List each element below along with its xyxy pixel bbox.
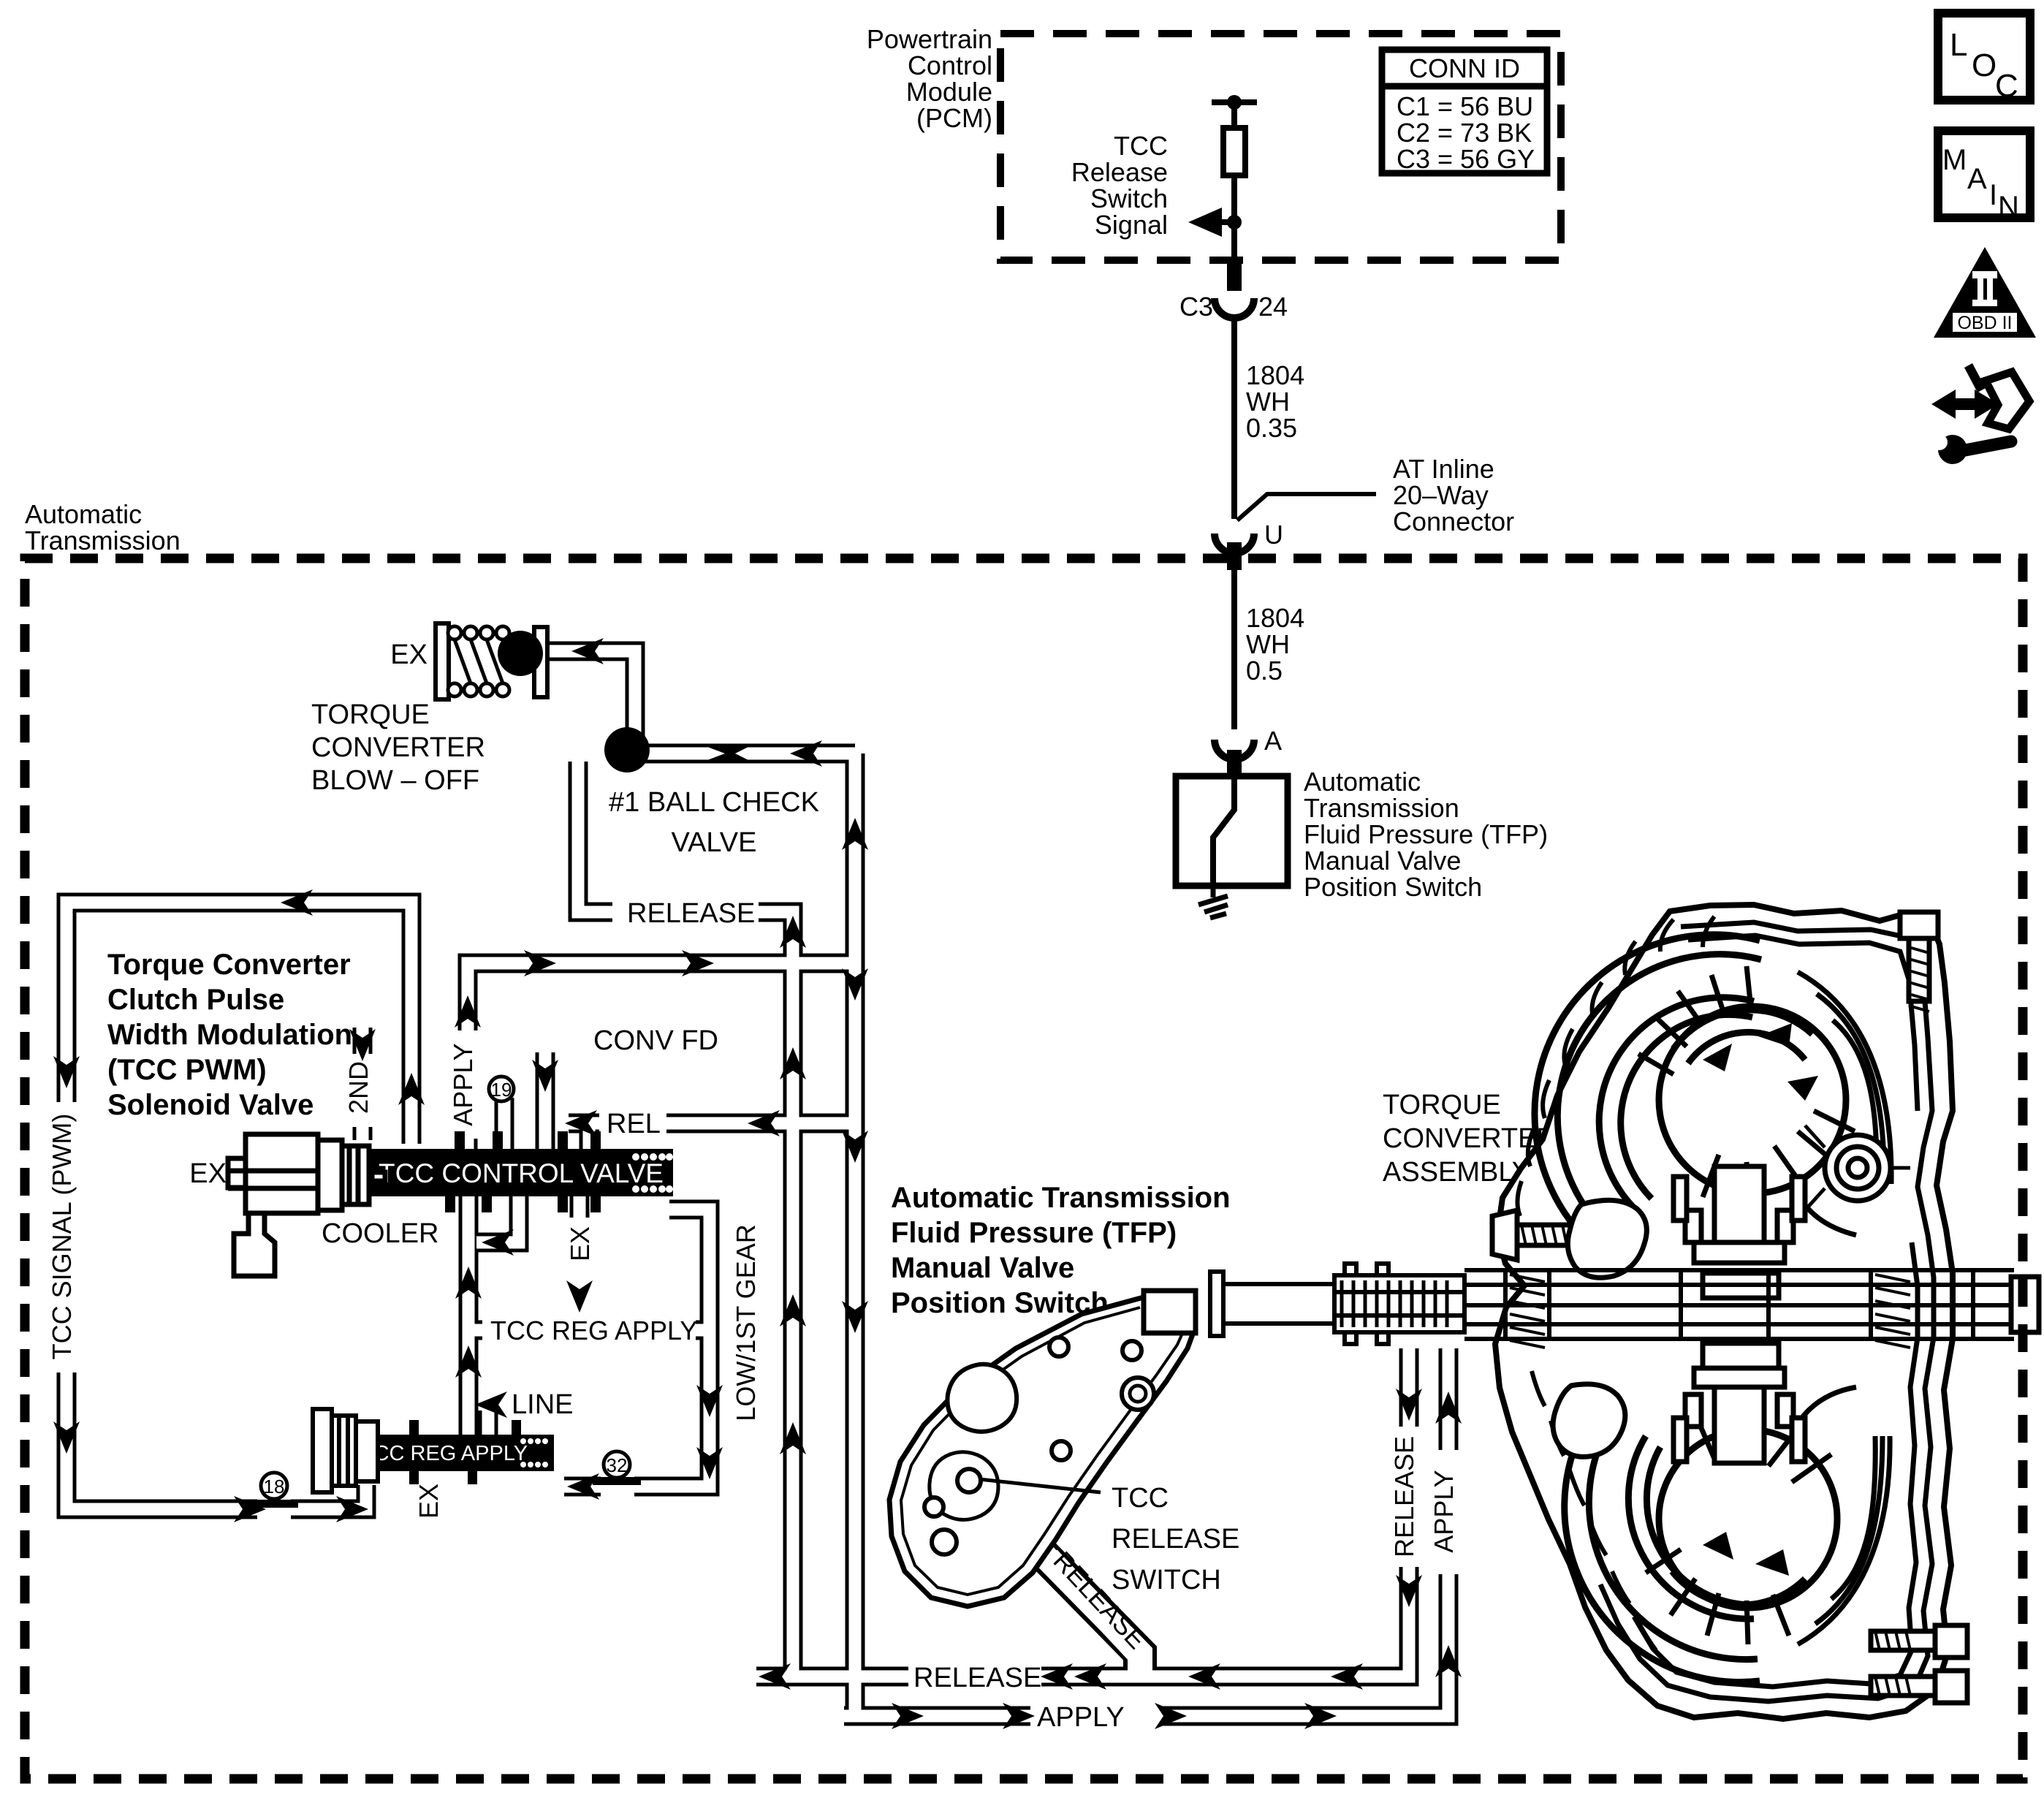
wire blow-off branch — [544, 651, 635, 747]
svg-text:Manual Valve: Manual Valve — [1304, 846, 1461, 876]
svg-text:Transmission: Transmission — [1304, 793, 1459, 823]
wire apply horizontal — [468, 963, 855, 1149]
wire 2ND stub — [353, 1028, 373, 1140]
valve TCC CONTROL VALVE — [369, 1131, 673, 1212]
svg-text:C1 = 56 BU: C1 = 56 BU — [1397, 91, 1533, 121]
housing inner wall — [1600, 922, 1934, 1701]
wire left PWM loop — [67, 903, 411, 1509]
switch TFP manual valve position — [1176, 776, 1288, 886]
svg-text:32: 32 — [607, 1454, 628, 1476]
svg-text:EX: EX — [414, 1484, 444, 1519]
bolts bottom right — [1871, 1625, 1967, 1703]
svg-text:2ND: 2ND — [343, 1061, 373, 1114]
svg-text:0.35: 0.35 — [1246, 413, 1297, 443]
svg-text:TCC SIGNAL (PWM): TCC SIGNAL (PWM) — [47, 1114, 77, 1360]
svg-text:Fluid Pressure (TFP): Fluid Pressure (TFP) — [891, 1217, 1177, 1249]
PCM dashed box — [1000, 34, 1561, 260]
torus arcs upper — [1535, 935, 1846, 1235]
svg-text:Manual Valve: Manual Valve — [891, 1252, 1074, 1284]
svg-text:Automatic: Automatic — [1304, 767, 1421, 797]
left lugs — [1553, 1200, 1646, 1457]
icon LOC — [1938, 13, 2030, 104]
svg-text:A: A — [1967, 163, 1987, 195]
svg-text:0.5: 0.5 — [1246, 656, 1283, 686]
svg-text:VALVE: VALVE — [672, 827, 757, 858]
svg-text:Control: Control — [908, 50, 992, 80]
svg-text:CONVERTER: CONVERTER — [311, 732, 485, 763]
orifice plate 18 — [250, 1473, 298, 1508]
svg-text:EX: EX — [565, 1226, 595, 1261]
svg-text:TCC: TCC — [1114, 131, 1168, 161]
svg-text:ASSEMBLY: ASSEMBLY — [1383, 1157, 1530, 1188]
connector A — [1215, 740, 1254, 759]
svg-text:24: 24 — [1258, 292, 1288, 322]
svg-text:CONV FD: CONV FD — [593, 1025, 718, 1056]
svg-text:Powertrain: Powertrain — [867, 24, 992, 54]
solenoid TCC PWM — [228, 1134, 385, 1276]
AT dashed box — [25, 558, 2023, 1779]
bolt left — [1492, 1210, 1581, 1260]
svg-text:REL: REL — [607, 1109, 661, 1139]
svg-text:WH: WH — [1246, 629, 1290, 659]
svg-text:Automatic: Automatic — [25, 499, 142, 529]
blades lower — [1646, 1418, 1831, 1644]
svg-text:Position Switch: Position Switch — [1304, 872, 1482, 902]
ball — [498, 631, 543, 676]
icon OBD II — [1934, 247, 2036, 338]
wire low/1st gear — [564, 1210, 710, 1487]
ground — [1198, 886, 1228, 918]
icon service arrow wrench — [1931, 363, 2029, 464]
svg-text:Width Modulation: Width Modulation — [107, 1019, 352, 1051]
svg-text:CONN ID: CONN ID — [1409, 53, 1520, 83]
svg-text:Module: Module — [906, 77, 992, 107]
svg-text:19: 19 — [491, 1079, 512, 1101]
wire bottom release — [756, 1348, 1409, 1677]
TFP switch plate — [889, 1291, 1196, 1606]
connector C3 pin 24 — [1227, 263, 1242, 291]
housing slot marks — [1517, 916, 1714, 1650]
wire REL stub — [580, 1123, 599, 1152]
svg-text:EX: EX — [189, 1158, 227, 1189]
wire TCC REG APPLY label segment — [468, 1321, 710, 1340]
wire ball-check down / apply vertical — [846, 753, 865, 1716]
torque converter assembly — [1495, 905, 1953, 1719]
torus arcs lower — [1565, 1411, 1837, 1682]
hub column — [1673, 1166, 1805, 1463]
bolt top right — [1900, 912, 1938, 1001]
orifice 19 — [489, 1077, 514, 1101]
wire 1804 WH 0.5 — [1231, 570, 1237, 729]
svg-text:L: L — [1950, 27, 1967, 63]
svg-text:COOLER: COOLER — [322, 1218, 438, 1249]
svg-text:C3 = 56 GY: C3 = 56 GY — [1397, 144, 1535, 174]
turbine shells upper right — [1792, 972, 1891, 1235]
converter shaft band — [1464, 1270, 2014, 1339]
valve TCC REG APPLY — [361, 1420, 554, 1484]
svg-text:20–Way: 20–Way — [1393, 480, 1489, 510]
svg-text:#1 BALL CHECK: #1 BALL CHECK — [609, 787, 819, 818]
svg-text:LOW/1ST GEAR: LOW/1ST GEAR — [731, 1224, 761, 1421]
wire ball-check right — [637, 744, 855, 764]
icon MAIN — [1938, 131, 2030, 223]
svg-text:OBD II: OBD II — [1957, 313, 2012, 333]
svg-text:RELEASE: RELEASE — [1389, 1436, 1419, 1557]
svg-text:Automatic Transmission: Automatic Transmission — [891, 1182, 1231, 1214]
svg-text:LINE: LINE — [512, 1389, 573, 1420]
svg-text:SWITCH: SWITCH — [1112, 1565, 1221, 1595]
svg-text:AT Inline: AT Inline — [1393, 454, 1494, 484]
svg-text:Clutch Pulse: Clutch Pulse — [107, 984, 284, 1016]
svg-text:Transmission: Transmission — [25, 525, 181, 555]
svg-text:EX: EX — [390, 639, 428, 670]
svg-text:TORQUE: TORQUE — [1383, 1090, 1501, 1120]
channel neck at ball check — [707, 747, 748, 756]
connector U — [1215, 534, 1254, 553]
wire release loop — [578, 762, 793, 1677]
svg-text:RELEASE: RELEASE — [627, 898, 755, 929]
svg-text:I: I — [1989, 179, 1997, 211]
wire port 19 stub — [495, 1098, 514, 1152]
wire flow arrows — [281, 889, 313, 916]
connector AT inline callout — [1237, 494, 1376, 520]
svg-text:TCC: TCC — [1112, 1483, 1169, 1514]
svg-text:TCC REG APPLY: TCC REG APPLY — [490, 1315, 697, 1345]
wire TFP release diagonal — [988, 1498, 1140, 1677]
svg-text:APPLY: APPLY — [1429, 1470, 1459, 1552]
switch TCC release callout — [979, 1479, 1101, 1492]
svg-text:BLOW – OFF: BLOW – OFF — [311, 765, 479, 796]
wire CONV FD stub — [536, 1052, 555, 1152]
svg-text:1804: 1804 — [1246, 603, 1304, 633]
svg-text:18: 18 — [264, 1476, 285, 1497]
svg-text:RELEASE: RELEASE — [1112, 1524, 1239, 1554]
svg-text:C: C — [1995, 68, 2018, 104]
svg-text:(TCC PWM): (TCC PWM) — [107, 1054, 267, 1086]
svg-text:TORQUE: TORQUE — [311, 699, 430, 730]
svg-text:Torque Converter: Torque Converter — [107, 949, 351, 981]
svg-text:M: M — [1942, 144, 1967, 176]
wire 1804 WH 0.35 — [1231, 319, 1237, 519]
wire EX stub — [570, 1193, 590, 1218]
svg-text:A: A — [1264, 726, 1282, 756]
wire cooler stub — [476, 1193, 519, 1242]
svg-text:C3: C3 — [1179, 292, 1213, 322]
shaft input — [1210, 1264, 1464, 1344]
resistor R (TCC pull-up) — [1188, 95, 1257, 265]
wire bottom apply — [844, 1348, 1448, 1716]
svg-text:APPLY: APPLY — [1037, 1702, 1125, 1733]
svg-text:Fluid Pressure (TFP): Fluid Pressure (TFP) — [1304, 819, 1548, 849]
svg-text:RELEASE: RELEASE — [913, 1663, 1041, 1693]
svg-text:Connector: Connector — [1393, 506, 1514, 536]
wire REL line — [569, 1114, 855, 1134]
svg-text:O: O — [1972, 48, 1996, 83]
wire valve to regulator — [459, 1193, 479, 1438]
svg-text:U: U — [1264, 520, 1283, 550]
svg-text:N: N — [1998, 191, 2019, 223]
valve torque converter blow-off — [436, 623, 547, 699]
svg-text:TCC REG APPLY: TCC REG APPLY — [361, 1442, 528, 1465]
ball check valve ball — [604, 727, 650, 772]
turbine shells lower right — [1792, 1387, 1890, 1644]
svg-text:Switch: Switch — [1090, 183, 1168, 213]
CONN ID table — [1382, 50, 1547, 173]
svg-text:WH: WH — [1246, 387, 1290, 417]
boss circles — [1825, 1135, 1891, 1201]
svg-text:Release: Release — [1071, 157, 1168, 187]
svg-text:Solenoid Valve: Solenoid Valve — [107, 1089, 314, 1121]
svg-text:(PCM): (PCM) — [916, 103, 992, 133]
svg-text:APPLY: APPLY — [448, 1043, 478, 1125]
blades upper — [1638, 966, 1855, 1206]
svg-text:C2 = 73 BK: C2 = 73 BK — [1397, 118, 1532, 148]
svg-text:TCC CONTROL VALVE: TCC CONTROL VALVE — [379, 1158, 664, 1188]
wire LINE stub — [479, 1411, 498, 1438]
svg-text:Signal: Signal — [1095, 210, 1168, 240]
orifice plate 32 — [593, 1451, 641, 1485]
svg-text:1804: 1804 — [1246, 360, 1304, 390]
solenoid TCC REG — [313, 1409, 378, 1492]
